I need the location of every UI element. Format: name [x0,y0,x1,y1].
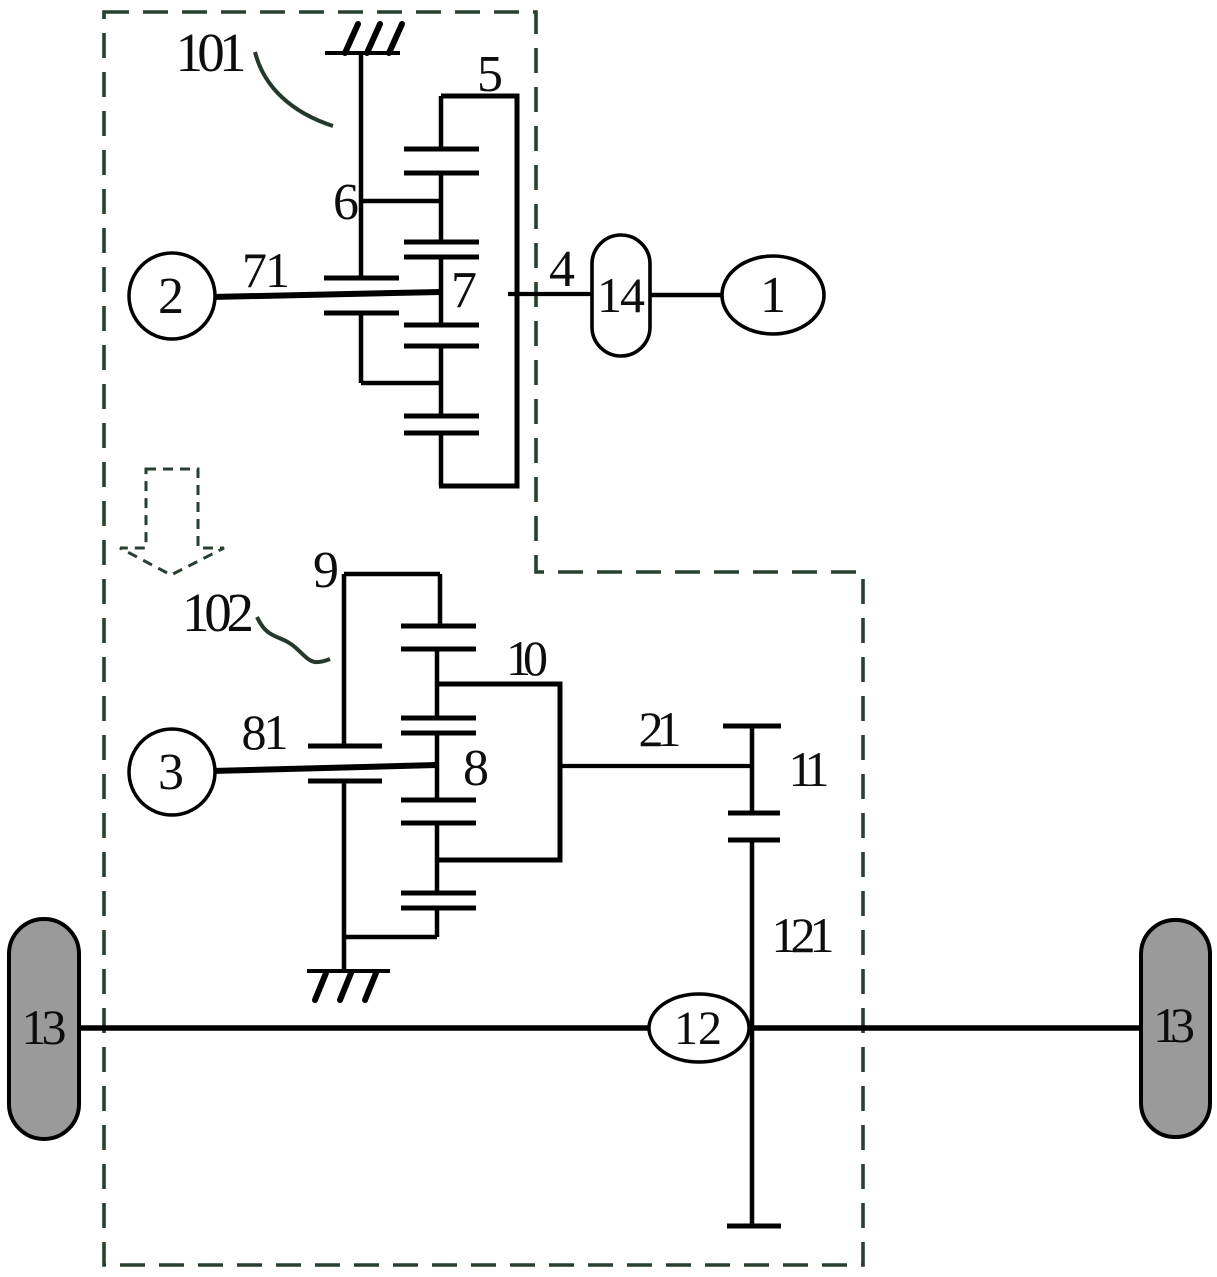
gear mesh C3 plates [404,325,479,346]
svg-text:1: 1 [760,267,786,324]
svg-text:4: 4 [549,241,575,298]
motor 2 [129,253,215,339]
axle to wheels [74,1025,1144,1031]
clutch 71 plates [324,278,399,313]
element 11 top bar [723,724,781,729]
svg-text:11: 11 [789,741,830,797]
svg-text:14: 14 [597,267,645,323]
shaft 21 [560,764,752,768]
svg-text:2: 2 [158,268,184,325]
gear mesh A plates [401,626,476,649]
gear mesh B plates [401,718,476,733]
wire: left column 9 lower [342,781,347,971]
shaft 121 bottom bar [727,1224,781,1229]
svg-text:101: 101 [176,22,247,83]
flow arrow (dashed hollow, pointing down) [120,469,224,575]
shaft 81 (motor 3 output) [212,765,437,771]
wire: left column lower segment [359,313,364,383]
shaft 4 [508,292,592,296]
shaft 71 (motor 2 output) [212,292,441,297]
wire: shaft 14 to engine 1 [650,293,724,298]
svg-text:12: 12 [674,1002,722,1055]
svg-text:13: 13 [1153,997,1195,1053]
svg-text:121: 121 [772,907,835,963]
frame 9 bottom wire [344,935,437,940]
wire: 11 vertical upper [750,726,755,813]
clutch 81 plates [308,746,382,781]
svg-text:81: 81 [242,704,289,760]
ground (bottom) [307,971,390,1000]
gear mesh C2 plates [404,242,479,257]
svg-text:10: 10 [506,630,548,686]
column of element 7 (planet line) [439,96,444,149]
svg-text:3: 3 [158,744,184,801]
differential 12 [649,994,749,1062]
shaft 121 vertical [750,840,755,1226]
wire: vertical link from ground to clutch 71 [359,53,364,278]
wheel 13 (left) [9,919,79,1139]
svg-text:7: 7 [451,262,477,319]
svg-text:5: 5 [477,46,503,103]
frame 9 top wire [344,572,440,577]
mesh 11 plates [728,813,780,840]
svg-text:6: 6 [333,174,359,231]
svg-text:21: 21 [639,701,682,757]
wire: junction link to column 7 [361,381,441,386]
ring gear 5 bracket [439,96,517,486]
gear mesh C plates [401,800,476,823]
leader swoosh for 102 [257,617,330,662]
ground (top) [325,24,402,53]
wire: left column 9 upper [342,574,347,746]
coupling 14 [592,235,650,356]
column of element 8 (planet line) [438,574,443,626]
svg-text:71: 71 [242,242,290,298]
svg-text:102: 102 [182,582,254,643]
svg-text:13: 13 [22,999,67,1055]
gear mesh C1 plates [404,149,479,173]
leader swoosh for 101 [255,52,333,126]
node 6 link wire [361,199,441,204]
engine 1 [722,256,824,334]
dashed enclosure border (101+102 modules) [104,12,863,1265]
wheel 13 (right) [1141,920,1210,1137]
bracket 10 [437,684,560,860]
motor 3 [129,729,215,815]
svg-text:9: 9 [313,542,339,599]
gear mesh D plates [401,893,476,908]
svg-text:8: 8 [463,740,489,797]
gear mesh C4 plates [404,416,479,433]
